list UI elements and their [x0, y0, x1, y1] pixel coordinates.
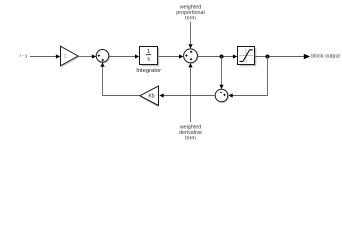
wire saturation to block output	[255, 54, 311, 60]
node weighted derivative term label	[179, 125, 202, 142]
wire input to gain G1	[30, 54, 60, 58]
svg-text:term: term	[185, 136, 196, 142]
saturation block	[238, 47, 257, 66]
wire gain G1 to sum S1	[78, 54, 96, 58]
wire junction J1 down to sum S3	[219, 57, 223, 90]
label Integrator	[136, 68, 161, 74]
gain Kb	[140, 86, 159, 106]
wire sum S1 to integrator	[109, 54, 140, 58]
svg-text:r - y: r - y	[20, 53, 29, 58]
node r-y input label	[20, 53, 29, 58]
svg-text:block output: block output	[311, 54, 340, 60]
svg-text:Kb: Kb	[148, 93, 154, 99]
sum S2	[184, 49, 199, 64]
wire sum S2 to saturation	[197, 54, 237, 58]
sum S3	[215, 89, 228, 102]
wire junction J2 down and left to sum S3	[228, 57, 267, 98]
junction J2	[266, 55, 270, 59]
gain G1 value 1	[61, 46, 79, 66]
wire integrator to sum S2	[159, 54, 184, 58]
wire gain Kb to sum S1 bottom	[100, 62, 139, 95]
node weighted proportional term label	[176, 5, 204, 22]
wire proportional term to sum S2 top	[188, 22, 192, 49]
svg-text:term: term	[185, 16, 196, 22]
integrator block 1/s	[140, 47, 160, 66]
sum S1	[96, 50, 109, 63]
svg-text:Integrator: Integrator	[136, 68, 161, 74]
svg-text:1: 1	[64, 53, 67, 59]
svg-text:s: s	[147, 56, 150, 62]
wire sum S3 to gain Kb	[159, 93, 215, 97]
wire derivative term to sum S2 bottom	[188, 63, 192, 122]
junction J1	[220, 55, 224, 59]
node block output label	[311, 54, 340, 60]
